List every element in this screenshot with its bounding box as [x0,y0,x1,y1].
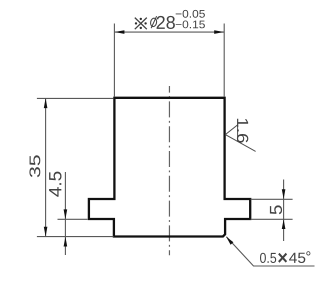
dim value 5 [270,205,282,214]
text 28 [157,16,175,29]
reference mark ※ [135,18,147,30]
part outline [89,98,250,237]
chamfer degree sign [306,251,310,255]
roughness 1.6 [237,119,248,143]
dim 5 extension line (flange bottom) [251,218,293,220]
dim 35 arrow top [44,98,48,108]
dim value 4.5 [49,172,61,197]
chamfer 45 [289,253,305,263]
dim value 35 [29,155,40,177]
dim ⌀28 extension line left [113,24,115,98]
dim ⌀28 extension line right [223,24,225,98]
dim 4.5 arrow lower (pointing up) [64,237,68,247]
chamfer leader arrowhead [226,237,233,245]
centerline [168,86,170,255]
chamfer 0.5 [260,253,276,263]
chamfer leader line [226,237,314,266]
tolerance -0.05 [176,10,205,18]
dim ⌀28 dimension line [115,31,224,33]
dim 35 dimension line [45,98,47,236]
dim ⌀28 arrow right [214,30,224,34]
dim 4.5 extension line (flange bottom) [58,218,88,220]
dim 35 extension line top [37,97,114,99]
dim 5 arrow lower (pointing up) [282,219,286,229]
dim 4.5 arrow upper (pointing down) [64,209,68,219]
dim 5 arrow upper (pointing down) [282,189,286,199]
dim 4.5 dimension line [64,172,66,255]
dim 35 / 4.5 shared bottom extension line [37,236,114,238]
dim 5 extension line (flange top) [251,198,293,200]
diameter symbol ø [150,16,158,28]
chamfer x [278,253,287,263]
tolerance -0.15 [176,21,205,29]
dim ⌀28 arrow left [115,30,125,34]
dim 5 dimension line [283,180,285,242]
dim 35 arrow bottom [44,227,48,237]
surface finish symbol (machined) [225,125,255,151]
